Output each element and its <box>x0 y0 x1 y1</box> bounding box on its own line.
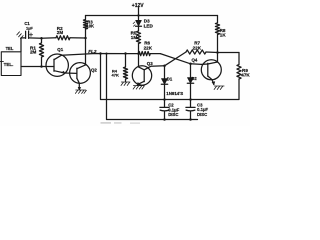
svg-text:LED: LED <box>144 23 154 28</box>
transistor Q3 <box>132 66 151 85</box>
diode D2 <box>190 64 192 78</box>
wire R2 to node <box>70 37 86 39</box>
svg-text:22K: 22K <box>193 45 202 50</box>
transistor Q4 <box>201 60 221 80</box>
cross-coupling diagonal R6 end to Q4 base node <box>160 54 190 64</box>
left margin tick <box>0 61 3 63</box>
node N2 <box>189 63 192 66</box>
cross-coupling diagonal R7 start to Q3 base node <box>165 52 187 66</box>
wire node to Q2 collector <box>85 38 87 65</box>
svg-text:DISC: DISC <box>197 112 207 117</box>
svg-text:1N914'S: 1N914'S <box>166 91 183 96</box>
svg-text:10K: 10K <box>86 23 94 28</box>
transistor Q1 <box>46 54 68 76</box>
diode D1 <box>164 66 166 79</box>
resistor R9 <box>237 53 241 80</box>
svg-text:TEL: TEL <box>6 46 14 51</box>
svg-text:2M: 2M <box>57 30 64 35</box>
wire Q4 node to R9 top <box>218 52 240 54</box>
svg-text:1K: 1K <box>220 33 227 38</box>
capacitor C3 <box>186 100 195 120</box>
ground hatch near C1 riser <box>17 32 23 39</box>
transistor Q2 <box>70 63 91 84</box>
wire C1 to R2 <box>29 37 56 39</box>
resistor R8 <box>215 16 219 53</box>
svg-text:47K: 47K <box>241 73 250 78</box>
faint caption dashes <box>101 122 112 123</box>
wire base line from box to Q1 <box>21 66 54 68</box>
+12V supply tick <box>138 8 140 16</box>
node R2/R3 junction <box>84 37 87 40</box>
svg-text:D2: D2 <box>191 76 197 81</box>
svg-text:TEL.: TEL. <box>4 62 14 67</box>
wire R5 node down to Q3 collector <box>138 54 140 67</box>
resistor R1 <box>39 38 43 66</box>
wire R6 to diagonal <box>150 53 160 55</box>
svg-text:2M: 2M <box>30 49 37 54</box>
ground under Q2 <box>75 90 86 93</box>
node N1 <box>163 65 166 68</box>
svg-text:DISC: DISC <box>168 112 178 117</box>
node R4 top <box>124 52 127 55</box>
svg-text:Q4: Q4 <box>192 58 198 63</box>
ground rail riser <box>105 53 107 55</box>
svg-text:22K: 22K <box>144 45 153 50</box>
capacitor C1 <box>26 31 29 38</box>
svg-text:Q3: Q3 <box>147 61 153 66</box>
resistor R6 <box>139 52 151 56</box>
svg-text:47K: 47K <box>112 73 119 78</box>
resistor R4 <box>123 54 127 82</box>
LED D3 <box>138 16 140 21</box>
svg-text:Q1: Q1 <box>57 47 63 52</box>
node trigger drop <box>99 52 102 55</box>
resistor R2 <box>56 36 70 40</box>
svg-text:D1: D1 <box>167 76 173 81</box>
mid line (Q1 collector bus) <box>62 54 139 56</box>
resistor R3 <box>83 16 87 39</box>
ground under Q4 <box>214 86 224 90</box>
wire R5 to mid line node <box>138 44 140 54</box>
ground under Q3 <box>133 86 144 90</box>
capacitor C2 <box>160 100 169 120</box>
svg-text:FL2: FL2 <box>88 49 97 54</box>
top +12V rail <box>86 15 218 17</box>
svg-text:1M: 1M <box>131 35 138 40</box>
wire box top riser to C1 <box>21 38 26 52</box>
svg-text:+12V: +12V <box>132 3 144 9</box>
input box TEL <box>1 52 21 76</box>
svg-text:1µF: 1µF <box>26 25 34 30</box>
ground under R4 <box>121 82 130 86</box>
resistor R7 <box>186 50 206 54</box>
svg-text:Q2: Q2 <box>91 68 97 73</box>
trigger line: drop, bottom run, rise to R9 <box>101 54 240 100</box>
resistor R5 <box>136 31 140 44</box>
